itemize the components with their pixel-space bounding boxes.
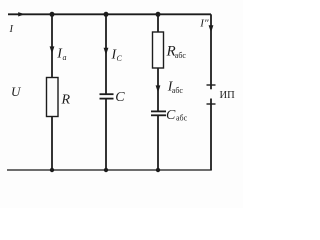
svg-text:абс: абс xyxy=(172,86,184,95)
svg-text:I″: I″ xyxy=(199,17,209,29)
svg-text:R: R xyxy=(61,93,71,108)
svg-text:U: U xyxy=(11,84,22,99)
svg-text:абс: абс xyxy=(175,51,187,60)
svg-text:C: C xyxy=(115,90,125,105)
svg-text:a: a xyxy=(63,53,67,62)
svg-text:C: C xyxy=(166,108,176,123)
svg-text:абс: абс xyxy=(176,114,188,123)
svg-text:C: C xyxy=(117,54,123,63)
svg-text:I: I xyxy=(9,24,14,35)
svg-text:ИП: ИП xyxy=(220,90,236,101)
